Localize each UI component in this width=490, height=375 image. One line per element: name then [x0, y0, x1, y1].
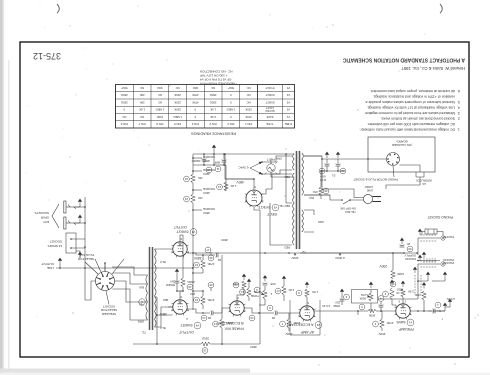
V1 plate wire	[382, 311, 396, 319]
svg-text:20V: 20V	[190, 292, 195, 296]
V1 input load resistor 470K	[423, 300, 425, 311]
svg-text:470K: 470K	[387, 321, 394, 325]
phono lead ground a	[444, 275, 446, 278]
svg-text:V4: V4	[195, 323, 199, 327]
svg-text:PIN 8: PIN 8	[120, 122, 127, 126]
resistance readings table	[116, 85, 295, 129]
tube V2A	[300, 306, 314, 320]
tube V1 6AV6	[396, 304, 410, 318]
coupling cap to V3 .02	[221, 255, 223, 313]
tube V4 6V6GT	[173, 300, 187, 314]
bias cap cluster cap2	[325, 165, 330, 167]
wire supply resistor	[392, 253, 394, 270]
V2A plate supply	[288, 328, 290, 331]
V1 plate decoupling cap	[379, 306, 384, 308]
power transformer heater winding right	[293, 154, 295, 171]
svg-text:SPKR: SPKR	[40, 216, 49, 220]
V2B grid wire	[244, 308, 259, 313]
svg-text:250Ω: 250Ω	[187, 280, 195, 284]
svg-text:5Y3GT: 5Y3GT	[258, 205, 271, 209]
B+ riser bus	[192, 154, 194, 310]
svg-text:NC: NC	[176, 86, 180, 90]
svg-text:27: 27	[276, 289, 280, 293]
filter cap C20A	[222, 161, 227, 163]
V5 cathode wire	[225, 154, 254, 190]
svg-text:BOARD): BOARD)	[396, 139, 407, 143]
V1 plate supply wire	[381, 328, 383, 331]
svg-text:470K: 470K	[245, 115, 252, 119]
svg-text:90Ω: 90Ω	[157, 86, 162, 90]
shielded lead dashed upper	[418, 263, 440, 265]
V4 grid resistor 470K	[201, 296, 205, 305]
jack brace	[52, 204, 59, 228]
svg-text:18: 18	[195, 263, 199, 267]
svg-text:ON-OFF SW.: ON-OFF SW.	[340, 206, 356, 210]
svg-text:V3: V3	[191, 230, 195, 234]
B+ bus left riser	[254, 207, 260, 344]
svg-text:OUTPUT: OUTPUT	[178, 330, 194, 334]
coupling cap to V4 .02	[213, 312, 222, 314]
svg-text:DC voltage measurements taken: DC voltage measurements taken with vacuu…	[359, 128, 455, 132]
svg-text:200V: 200V	[291, 256, 298, 260]
common grid return wire	[193, 273, 203, 291]
svg-text:PLUG M-6: PLUG M-6	[79, 253, 94, 257]
svg-text:6V6GT: 6V6GT	[265, 93, 274, 97]
filter ground	[213, 148, 215, 151]
power transformer heater lead GRN left	[304, 210, 314, 232]
motor leads	[432, 280, 438, 282]
B+ bus top	[133, 343, 260, 345]
scanner background strip bottom edge	[0, 369, 250, 373]
filter resistor 1.2K	[224, 182, 228, 191]
heater arrows 6.3VAC	[250, 162, 262, 174]
svg-text:220K: 220K	[174, 108, 181, 112]
svg-text:11: 11	[241, 290, 244, 294]
svg-text:15K: 15K	[198, 176, 203, 180]
svg-text:SOCKETS: SOCKETS	[35, 211, 49, 215]
wire V4 plate to primary	[155, 307, 173, 327]
riser dropping resistor lower	[191, 174, 195, 183]
svg-text:OUTPUT: OUTPUT	[173, 225, 187, 229]
svg-text:250V: 250V	[378, 332, 385, 336]
svg-text:1.5K: 1.5K	[312, 290, 318, 294]
svg-text:AC voltages measured with 1000: AC voltages measured with 1000 ohm per v…	[367, 122, 455, 126]
wire phono supply feed	[300, 252, 404, 254]
phono shield dashed horizontal	[423, 259, 436, 262]
svg-text:T2: T2	[302, 250, 306, 254]
svg-text:PIN 6: PIN 6	[156, 122, 163, 126]
changer board box	[368, 137, 435, 172]
svg-text:SOCKET: SOCKET	[49, 240, 62, 244]
svg-text:NC: NC	[158, 93, 162, 97]
wire grid res	[392, 299, 396, 305]
svg-text:RED: RED	[284, 246, 290, 250]
svg-text:V5: V5	[286, 86, 290, 90]
svg-text:17: 17	[206, 248, 210, 252]
svg-text:.02: .02	[207, 316, 212, 320]
main B minus bus	[322, 158, 368, 160]
svg-text:PIN 2: PIN 2	[227, 122, 234, 126]
label V2A ECC83	[315, 322, 322, 329]
svg-text:6AV6: 6AV6	[266, 115, 273, 119]
svg-text:1.5K: 1.5K	[210, 108, 216, 112]
pilot lamp rays	[265, 162, 278, 175]
svg-text:470K: 470K	[192, 100, 199, 104]
svg-text:12AX7: 12AX7	[266, 106, 274, 110]
label V3 6V6GT below	[190, 229, 197, 236]
svg-text:380V: 380V	[193, 256, 201, 260]
svg-text:SOURCE: SOURCE	[203, 168, 215, 172]
svg-text:20K: 20K	[140, 93, 145, 97]
svg-text:6V6GT: 6V6GT	[176, 230, 189, 234]
V2B cathode wire	[237, 289, 244, 301]
svg-text:PHONO: PHONO	[442, 258, 454, 262]
svg-text:20MF: 20MF	[333, 304, 340, 308]
svg-text:1.5K: 1.5K	[139, 108, 145, 112]
svg-text:380V: 380V	[159, 312, 167, 316]
V2A cathode resistor 1.5K	[306, 297, 308, 306]
rail junction dots	[288, 252, 290, 254]
svg-text:375-12: 375-12	[33, 51, 61, 61]
svg-text:100K: 100K	[227, 321, 234, 325]
label V1 6AV6	[407, 319, 414, 326]
V1 coupling cap .02	[376, 310, 382, 312]
motor wires	[368, 159, 420, 172]
svg-text:VOL: VOL	[360, 293, 366, 297]
shield riser ground	[414, 270, 416, 273]
heater dots	[261, 173, 263, 175]
svg-text:SOURCE: SOURCE	[203, 207, 215, 211]
svg-text:Line voltage maintained at 117: Line voltage maintained at 117 volts for…	[367, 106, 455, 110]
V2A coupling cap .02	[277, 312, 289, 314]
svg-text:.005: .005	[270, 282, 276, 286]
svg-text:PREAMP: PREAMP	[398, 327, 414, 331]
phono lead ground b	[427, 275, 429, 278]
power transformer heater winding left	[302, 210, 304, 232]
svg-text:EXT.: EXT.	[42, 220, 49, 224]
selector socket	[96, 272, 115, 291]
svg-text:A 300V: A 300V	[335, 256, 345, 260]
wire primary center tap B+	[155, 296, 158, 298]
svg-text:21: 21	[218, 185, 222, 189]
screen dropping resistor 250 ohm	[201, 342, 210, 346]
svg-text:50Ω*: 50Ω*	[120, 86, 127, 90]
svg-text:11: 11	[216, 167, 219, 171]
cartridge symbol	[425, 229, 437, 234]
pen mark left below frame	[440, 4, 442, 13]
svg-text:V3: V3	[286, 100, 290, 104]
heater stub wires	[262, 162, 267, 174]
schematic border frame	[20, 42, 469, 357]
svg-text:100K: 100K	[397, 272, 404, 276]
svg-text:NC: NC	[140, 86, 144, 90]
svg-text:PHONO: PHONO	[442, 235, 454, 239]
svg-text:60∼: 60∼	[319, 174, 325, 178]
wire interlock to plug	[386, 181, 420, 189]
selector socket diagonal lead	[85, 259, 124, 274]
volume control box	[352, 290, 378, 304]
wire cartridge to jack	[422, 232, 443, 236]
svg-text:90Ω: 90Ω	[193, 86, 198, 90]
svg-text:A: A	[186, 317, 188, 321]
bias cap cluster cap1	[336, 165, 341, 167]
svg-text:SOCKET: SOCKET	[103, 304, 116, 308]
svg-text:20: 20	[407, 242, 411, 246]
svg-text:BLK: BLK	[139, 286, 144, 290]
power transformer lead RED-YEL	[286, 154, 292, 203]
AC plug wires	[304, 156, 363, 200]
svg-text:470K: 470K	[208, 298, 215, 302]
svg-text:Measured values are from socke: Measured values are from socket pin to c…	[364, 111, 455, 115]
svg-text:NC: NC	[140, 115, 144, 119]
svg-text:1.2K: 1.2K	[230, 184, 236, 188]
svg-text:GRN: GRN	[276, 157, 282, 160]
speaker panel wires	[71, 239, 85, 248]
svg-text:6V6GT: 6V6GT	[265, 100, 274, 104]
svg-text:OUTPUT: OUTPUT	[41, 262, 54, 266]
svg-text:PHONO SOCKET: PHONO SOCKET	[427, 215, 453, 219]
label V5 5Y3GT	[272, 204, 279, 211]
svg-text:.01: .01	[332, 174, 336, 178]
svg-text:NC: NC	[122, 115, 126, 119]
line output vertical drop	[84, 197, 86, 300]
V2B grid resistor 470K	[247, 288, 251, 297]
svg-text:2.: 2.	[457, 117, 460, 121]
svg-text:TYPE: TYPE	[266, 122, 273, 126]
svg-text:16: 16	[195, 298, 199, 302]
ext speaker jack lower ground	[79, 202, 81, 205]
label V4 6V6GT	[194, 322, 201, 329]
shield ground upper	[419, 258, 421, 261]
svg-text:A PHOTOFACT STANDARD NOTATION: A PHOTOFACT STANDARD NOTATION SCHEMATIC	[342, 57, 465, 63]
svg-text:NC: NC	[247, 93, 251, 97]
V1 grid wire	[410, 310, 445, 312]
speaker panel ground	[79, 255, 81, 258]
phono motor plug leader	[393, 166, 394, 177]
svg-text:2.2K: 2.2K	[288, 288, 294, 292]
svg-text:T1: T1	[142, 330, 146, 334]
V3 grid resistor 470K	[201, 260, 205, 269]
svg-text:V2: V2	[316, 323, 320, 327]
svg-text:PIN 3: PIN 3	[209, 122, 216, 126]
V2A grid wire	[312, 308, 314, 310]
svg-text:RECT.: RECT.	[266, 212, 277, 216]
ext speaker jack upper ground	[79, 218, 81, 221]
wire jack riser	[85, 281, 96, 300]
svg-text:250Ω: 250Ω	[210, 93, 217, 97]
V2B plate resistor 100K	[220, 319, 224, 328]
svg-text:10: 10	[250, 316, 254, 320]
svg-text:14: 14	[202, 316, 206, 320]
tone control pot	[263, 290, 267, 299]
selector socket bottom stub	[104, 263, 106, 272]
svg-text:V1: V1	[408, 320, 412, 324]
pilot lamp	[267, 164, 275, 172]
svg-text:NC: NC	[158, 100, 162, 104]
line output wire	[130, 267, 193, 269]
AC plug	[363, 194, 372, 203]
pen mark right below frame	[57, 4, 59, 13]
svg-text:13: 13	[214, 322, 218, 326]
selector socket leader	[106, 291, 109, 305]
svg-text:15: 15	[203, 348, 207, 352]
svg-text:SUPPLY: SUPPLY	[404, 253, 416, 257]
svg-text:450V: 450V	[236, 180, 244, 184]
svg-text:250Ω: 250Ω	[201, 337, 209, 341]
svg-text:PIN 1: PIN 1	[245, 122, 252, 126]
svg-text:.02: .02	[271, 316, 276, 320]
volume pot ref	[359, 304, 365, 310]
svg-text:Nominal tolerance of component: Nominal tolerance of component values ma…	[365, 100, 455, 104]
svg-text:470K: 470K	[254, 290, 261, 294]
svg-text:BLK: BLK	[309, 196, 314, 199]
svg-text:YEL-BLK: YEL-BLK	[345, 210, 356, 214]
svg-text:A 6.3V: A 6.3V	[322, 304, 330, 308]
bias cluster wires	[322, 170, 345, 172]
svg-text:.02: .02	[217, 258, 222, 262]
power transformer primary winding	[302, 153, 304, 195]
svg-text:NC: NC	[247, 100, 251, 104]
svg-text:NC - NO CONNECTION: NC - NO CONNECTION	[200, 70, 233, 74]
V1 grid input ground	[444, 306, 446, 309]
svg-text:25V: 25V	[335, 301, 340, 305]
svg-text:GRN: GRN	[318, 220, 324, 224]
svg-text:BLU: BLU	[160, 326, 165, 330]
wire V3 plate to primary	[155, 248, 173, 250]
svg-text:CORD: CORD	[365, 185, 373, 189]
V2A shield enclosure	[290, 300, 320, 335]
scan speckle noise	[166, 59, 167, 60]
output transformer primary winding	[155, 249, 157, 327]
svg-text:100K: 100K	[156, 115, 163, 119]
bias resistor 47ohm	[319, 187, 323, 195]
svg-text:100K: 100K	[294, 321, 301, 325]
svg-text:500K: 500K	[369, 314, 376, 318]
svg-text:PHONO MOTOR PLUG & SOCKET: PHONO MOTOR PLUG & SOCKET	[353, 178, 398, 182]
svg-text:Howard W. Sams & Co., Inc. 195: Howard W. Sams & Co., Inc. 1957	[401, 66, 465, 71]
power transformer primary leads	[304, 156, 330, 195]
svg-text:6MF: 6MF	[214, 161, 220, 165]
svg-text:220K: 220K	[174, 93, 181, 97]
ext speaker jack upper	[64, 217, 66, 229]
volume pot 500K	[369, 293, 373, 301]
wire socket to jacks	[74, 207, 105, 272]
scanner background strip left edge	[0, 0, 3, 375]
svg-text:RESISTANCE READINGS: RESISTANCE READINGS	[191, 132, 236, 136]
V2A plate resistor 100K	[287, 319, 291, 328]
tone cap .005	[264, 299, 266, 305]
svg-text:YEL: YEL	[138, 303, 144, 307]
V2A plate wire	[289, 313, 300, 319]
svg-text:V2: V2	[286, 108, 290, 112]
svg-text:19: 19	[188, 285, 192, 289]
svg-text:V4: V4	[286, 93, 290, 97]
svg-text:20K: 20K	[140, 100, 145, 104]
cathode bypass cap 50MFD	[175, 282, 180, 284]
coupling ref upper	[208, 282, 214, 288]
svg-text:30: 30	[408, 247, 412, 251]
phono input jack lower	[441, 236, 445, 240]
output transformer core	[150, 247, 153, 330]
svg-text:250Ω: 250Ω	[210, 100, 217, 104]
capacitor ref 30	[407, 246, 413, 252]
capacitor phono supply 20MFD	[400, 246, 405, 248]
svg-text:BLU: BLU	[160, 260, 165, 264]
svg-text:V1: V1	[286, 115, 290, 119]
svg-text:220K: 220K	[245, 108, 252, 112]
svg-text:450V: 450V	[250, 345, 257, 349]
svg-text:250Ω: 250Ω	[121, 93, 128, 97]
filter cap C20B	[202, 160, 207, 162]
svg-text:PIN 7: PIN 7	[138, 122, 145, 126]
coupling ref lower	[208, 255, 214, 261]
on-off switch	[343, 200, 350, 204]
svg-text:AF AMP: AF AMP	[300, 330, 315, 334]
svg-text:PIN 4: PIN 4	[191, 122, 198, 126]
svg-text:1 MEG: 1 MEG	[156, 108, 165, 112]
svg-text:6.3VAC: 6.3VAC	[238, 166, 249, 170]
svg-text:250V: 250V	[285, 332, 292, 336]
V1 grid coupling cap	[434, 309, 436, 314]
tube V5 5Y3GT	[246, 190, 262, 206]
svg-text:RED-YEL: RED-YEL	[279, 204, 290, 207]
svg-text:3.3K: 3.3K	[408, 290, 414, 294]
shield ground lower	[419, 232, 421, 235]
svg-text:6AV6: 6AV6	[396, 320, 405, 324]
power transformer HV secondary winding	[293, 173, 295, 245]
power transformer core	[297, 151, 300, 249]
output transformer secondary winding	[146, 275, 148, 320]
svg-text:TUBE: TUBE	[285, 122, 293, 126]
svg-text:1 MEG: 1 MEG	[227, 108, 236, 112]
power transformer lead RED upper	[270, 203, 292, 245]
svg-text:250Ω: 250Ω	[121, 100, 128, 104]
wire 200V rail	[193, 252, 417, 254]
svg-text:26: 26	[209, 256, 213, 260]
feedback resistor near V2A	[282, 286, 286, 295]
svg-text:16 SPKRS: 16 SPKRS	[48, 244, 62, 248]
svg-text:PHASE INV.: PHASE INV.	[224, 327, 244, 331]
svg-text:34: 34	[185, 177, 189, 181]
svg-text:200V: 200V	[379, 264, 387, 268]
selector plug leader	[95, 259, 101, 272]
svg-text:V5: V5	[273, 205, 277, 209]
ext speaker jack lower	[64, 201, 66, 213]
svg-text:PIN 5: PIN 5	[174, 122, 181, 126]
V1 plate resistor 470K	[380, 319, 384, 328]
svg-text:NC: NC	[247, 86, 251, 90]
screen feed riser	[157, 297, 173, 344]
tone wire tap	[259, 304, 265, 306]
svg-text:GRN: GRN	[138, 320, 144, 324]
svg-text:3.: 3.	[457, 111, 460, 115]
svg-text:33: 33	[185, 197, 189, 201]
pilot wires	[271, 159, 295, 177]
AC interlock notch	[416, 172, 424, 181]
svg-text:SOURCE: SOURCE	[203, 187, 215, 191]
svg-text:A 6.3V: A 6.3V	[447, 297, 455, 301]
V1 cathode resistor	[402, 297, 404, 304]
V2B plate wire	[222, 308, 230, 319]
svg-text:28: 28	[324, 189, 328, 193]
wires secondary to socket	[112, 267, 148, 320]
svg-text:RED: RED	[163, 298, 168, 301]
svg-text:220K: 220K	[174, 100, 181, 104]
svg-text:6V6GT: 6V6GT	[180, 323, 193, 327]
shielded riser to preamp grid	[417, 238, 419, 299]
phono motor socket	[387, 153, 400, 166]
svg-text:3.3K: 3.3K	[210, 115, 216, 119]
